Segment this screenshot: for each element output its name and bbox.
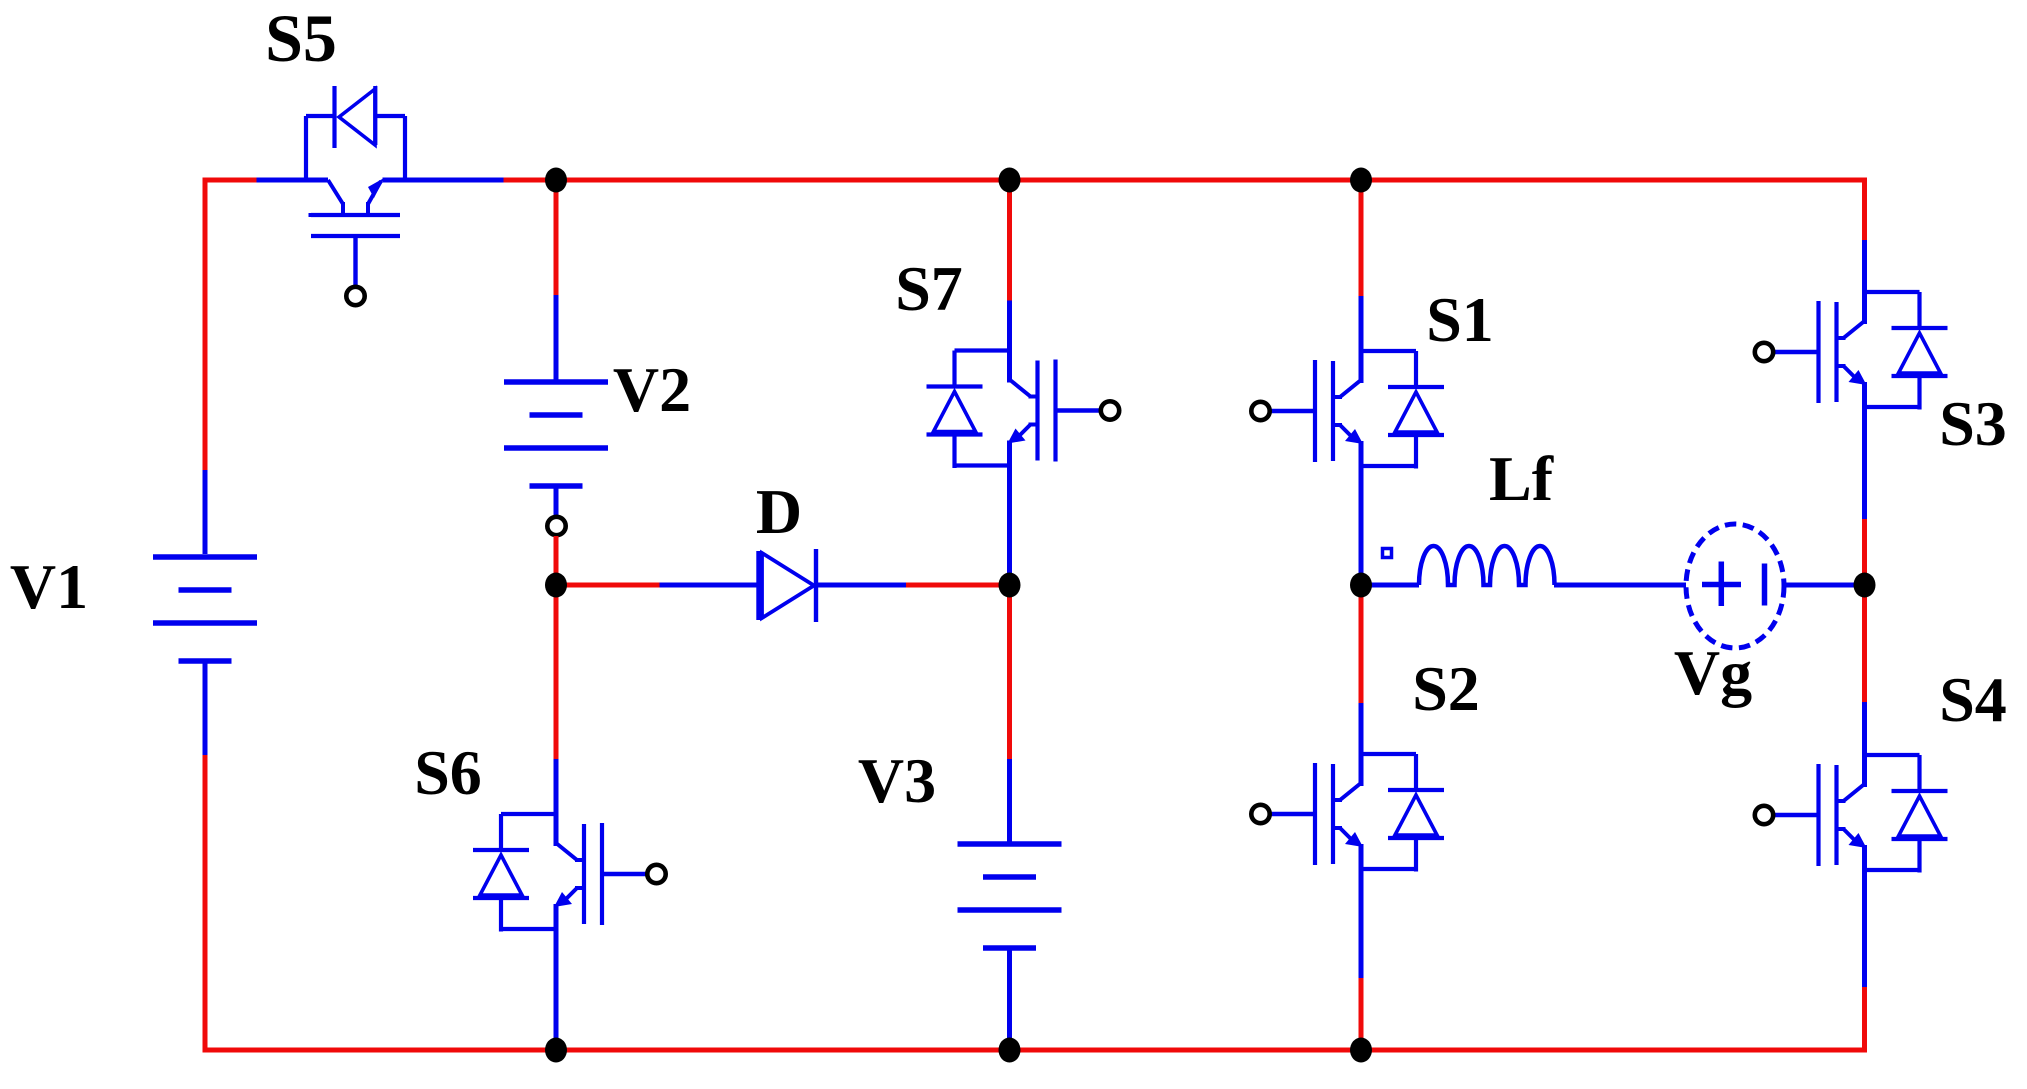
svg-text:V3: V3	[858, 745, 936, 816]
svg-text:V2: V2	[613, 354, 691, 425]
svg-text:S6: S6	[414, 737, 482, 808]
svg-text:Vg: Vg	[1674, 637, 1752, 708]
svg-text:S5: S5	[265, 0, 337, 76]
svg-text:S4: S4	[1939, 664, 2007, 735]
svg-text:S7: S7	[895, 253, 963, 324]
svg-text:S1: S1	[1426, 284, 1494, 355]
svg-text:V1: V1	[10, 551, 88, 622]
svg-text:S3: S3	[1939, 388, 2007, 459]
svg-text:S2: S2	[1412, 653, 1480, 724]
svg-text:D: D	[756, 476, 802, 547]
svg-text:Lf: Lf	[1489, 443, 1554, 514]
